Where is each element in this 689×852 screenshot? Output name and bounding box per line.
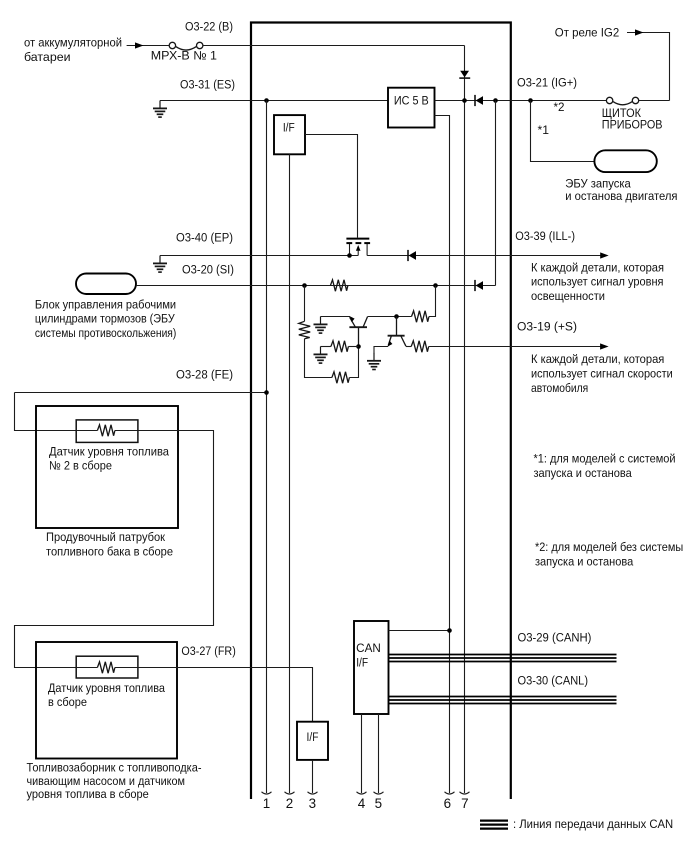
resistor R2 vertical xyxy=(299,321,310,339)
wire FR to I/F box xyxy=(138,668,313,722)
svg-text:освещенности: освещенности xyxy=(531,289,605,303)
pin 7 terminal xyxy=(460,792,470,794)
svg-text:3: 3 xyxy=(309,796,316,811)
svg-text:использует сигнал скорости: использует сигнал скорости xyxy=(531,367,673,381)
wire fuse to box xyxy=(203,45,465,47)
svg-text:*1: *1 xyxy=(538,123,550,137)
wire gnd to R4 xyxy=(321,346,331,348)
svg-text:2: 2 xyxy=(286,796,293,811)
node FE on pin1 line xyxy=(264,390,269,395)
wire SI xyxy=(136,285,496,287)
fuel tank vent tube box xyxy=(36,406,178,528)
ABS control block xyxy=(76,274,136,295)
CANH bus triple line xyxy=(389,655,617,662)
fuse instrument panel xyxy=(606,97,638,105)
pin 4 terminal xyxy=(357,792,367,794)
pin 1 terminal xyxy=(262,792,272,794)
svg-text:запуска и останова: запуска и останова xyxy=(534,466,632,480)
ground ES xyxy=(153,101,167,118)
svg-text:O3-29 (CANH): O3-29 (CANH) xyxy=(518,630,592,644)
svg-text:цилиндрами тормозов (ЭБУ: цилиндрами тормозов (ЭБУ xyxy=(35,312,175,326)
wire R3 to base node xyxy=(349,347,358,378)
wire emitter Q2 xyxy=(321,316,351,318)
svg-text:O3-19 (+S): O3-19 (+S) xyxy=(517,320,577,334)
svg-text:7: 7 xyxy=(461,796,468,811)
wire R5 corner up to SI node xyxy=(429,286,436,317)
wire sensor2 to FR loop xyxy=(15,431,214,668)
ground Q2 emitter xyxy=(314,317,328,334)
svg-text:*2: *2 xyxy=(554,100,565,114)
node SI branch xyxy=(302,283,307,288)
svg-text:запуска и останова: запуска и останова xyxy=(535,554,633,568)
resistor R1 on SI line xyxy=(330,280,348,291)
svg-text:ИС 5 В: ИС 5 В xyxy=(394,96,429,108)
IC regulator U1 xyxy=(388,88,435,128)
wire EP to MOSFET source xyxy=(160,255,358,257)
svg-text:ПРИБОРОВ: ПРИБОРОВ xyxy=(602,117,663,131)
svg-text:№ 2 в сборе: № 2 в сборе xyxy=(49,459,112,473)
diode D3 on ILL line pointing left xyxy=(408,250,416,261)
svg-text:I/F: I/F xyxy=(356,658,368,670)
wire R4 to base node xyxy=(348,346,358,348)
wire pin 3 xyxy=(312,760,314,793)
svg-text:O3-21 (IG+): O3-21 (IG+) xyxy=(517,76,577,90)
resistor sensor 2 xyxy=(97,425,115,436)
fuel suction box xyxy=(36,642,177,759)
svg-text:Топливозаборник с топливоподка: Топливозаборник с топливоподка- xyxy=(27,761,202,775)
svg-text:*1: для моделей с системой: *1: для моделей с системой xyxy=(534,451,676,465)
wire CAN IF to pin6 xyxy=(389,630,450,632)
svg-text:I/F: I/F xyxy=(307,732,319,744)
node Q3 base xyxy=(394,314,399,319)
node MOSFET source xyxy=(347,253,352,258)
svg-text:чивающим насосом и датчиком: чивающим насосом и датчиком xyxy=(27,774,186,788)
svg-text:O3-31 (ES): O3-31 (ES) xyxy=(180,78,235,92)
svg-text:*2: для моделей без системы: *2: для моделей без системы xyxy=(535,540,683,554)
wire from battery with arrow xyxy=(127,45,170,47)
ground Q3 emitter xyxy=(367,353,381,370)
pin 5 terminal xyxy=(374,792,384,794)
svg-text:O3-30 (CANL): O3-30 (CANL) xyxy=(518,673,589,687)
wire R2 to bottom loop xyxy=(305,339,332,378)
svg-text:топливного бака в сборе: топливного бака в сборе xyxy=(46,544,173,558)
wire I/F to MOSFET gate xyxy=(305,135,358,238)
wire *1 branch to start-stop ECU xyxy=(531,101,595,162)
wire Q3 emitter to ground xyxy=(374,347,388,354)
node B corner down: pin 7 line xyxy=(464,46,466,794)
svg-text:батареи: батареи xyxy=(24,50,71,64)
node pin1 junction xyxy=(264,98,269,103)
wire IG+ segment xyxy=(435,100,607,102)
wire FE loop left down xyxy=(15,393,77,431)
wire Q2 collector to Q3 base node xyxy=(368,316,412,318)
resistor R4 xyxy=(331,341,349,352)
node at pin7 line xyxy=(462,98,467,103)
svg-text:5: 5 xyxy=(375,796,382,811)
interface box U2 xyxy=(274,115,305,154)
fuel level sensor 2 rect xyxy=(76,420,138,443)
svg-text:Датчик уровня топлива: Датчик уровня топлива xyxy=(49,444,169,458)
diode D4 on SI line pointing left xyxy=(475,280,483,291)
node SI to transistor network xyxy=(433,283,438,288)
ground base resistor xyxy=(314,347,328,364)
wire pin 5 xyxy=(378,714,380,793)
resistor sensor xyxy=(97,662,115,673)
svg-text:1: 1 xyxy=(263,796,270,811)
svg-text:Продувочный патрубок: Продувочный патрубок xyxy=(46,530,166,544)
svg-text:МРХ-В № 1: МРХ-В № 1 xyxy=(151,49,217,63)
main ECU box (open bottom) xyxy=(251,23,511,800)
svg-text:и останова двигателя: и останова двигателя xyxy=(565,189,677,203)
svg-text:CAN: CAN xyxy=(356,643,381,655)
wire SI branch down xyxy=(304,286,306,322)
wire from IG2 relay xyxy=(627,33,670,101)
wire Q3 collector +S out xyxy=(406,346,411,348)
node at x494 xyxy=(493,98,498,103)
pin 6 terminal xyxy=(445,792,455,794)
svg-text:6: 6 xyxy=(444,796,451,811)
svg-text:использует сигнал уровня: использует сигнал уровня xyxy=(531,275,664,289)
svg-text:O3-28 (FE): O3-28 (FE) xyxy=(176,368,233,382)
transistor Q3 xyxy=(388,317,406,347)
svg-text:Датчик уровня топлива: Датчик уровня топлива xyxy=(48,681,165,695)
wire pin 2 vertical xyxy=(289,154,291,793)
wire x495 vertical down to SI xyxy=(495,101,497,286)
fuel level sensor rect xyxy=(76,656,138,678)
svg-text:системы противоскольжения): системы противоскольжения) xyxy=(35,326,176,340)
diode D1 on pin7 line (pointing down) xyxy=(459,71,470,78)
interface box U3 xyxy=(297,722,328,760)
resistor R6 on +S line xyxy=(411,341,429,352)
wire inside sensor 2 xyxy=(76,430,97,432)
wire inside sensor xyxy=(76,667,97,669)
wire fuse to right rail xyxy=(639,100,670,102)
svg-text:автомобиля: автомобиля xyxy=(531,381,588,395)
resistor R5 xyxy=(412,311,430,322)
fuse MPX-B No1 xyxy=(169,42,203,50)
svg-text:O3-40 (EP): O3-40 (EP) xyxy=(176,231,233,245)
CAN I/F box U4 xyxy=(354,621,389,714)
pin 3 terminal xyxy=(308,792,318,794)
start-stop ECU block xyxy=(594,150,656,172)
wire +S output xyxy=(429,346,607,348)
node Q2 base xyxy=(356,344,361,349)
svg-text:уровня топлива в сборе: уровня топлива в сборе xyxy=(27,787,149,801)
CANL bus triple line xyxy=(389,697,617,704)
transistor Q2 xyxy=(349,316,367,346)
svg-text:в сборе: в сборе xyxy=(48,695,87,709)
wire ILL- output xyxy=(367,255,606,257)
wire IC to pin6 line xyxy=(435,116,450,794)
diode D2 on IG+ line pointing left xyxy=(475,95,483,106)
wire pin 1 vertical xyxy=(266,101,268,794)
svg-text:Блок управления рабочими: Блок управления рабочими xyxy=(35,297,176,311)
svg-text:К каждой детали, которая: К каждой детали, которая xyxy=(531,352,664,366)
wire ES to IC box xyxy=(160,100,388,102)
node on pin6 line xyxy=(447,628,452,633)
svg-text:I/F: I/F xyxy=(283,123,295,135)
svg-text:От реле IG2: От реле IG2 xyxy=(555,26,620,40)
svg-text:4: 4 xyxy=(358,796,366,811)
pin 2 terminal xyxy=(285,792,295,794)
svg-text:от аккумуляторной: от аккумуляторной xyxy=(24,36,122,50)
svg-text:: Линия передачи данных CAN: : Линия передачи данных CAN xyxy=(513,817,673,831)
svg-text:O3-39 (ILL-): O3-39 (ILL-) xyxy=(515,229,575,243)
svg-text:К каждой детали, которая: К каждой детали, которая xyxy=(531,260,664,274)
svg-text:O3-22 (B): O3-22 (B) xyxy=(185,20,233,34)
svg-text:O3-27 (FR): O3-27 (FR) xyxy=(181,644,235,658)
wire FE xyxy=(15,392,267,394)
wire pin 4 xyxy=(361,714,363,793)
svg-text:O3-20 (SI): O3-20 (SI) xyxy=(182,263,234,277)
resistor R3 bottom xyxy=(332,372,350,383)
node at x530.8 xyxy=(528,98,533,103)
ground EP xyxy=(153,256,167,273)
